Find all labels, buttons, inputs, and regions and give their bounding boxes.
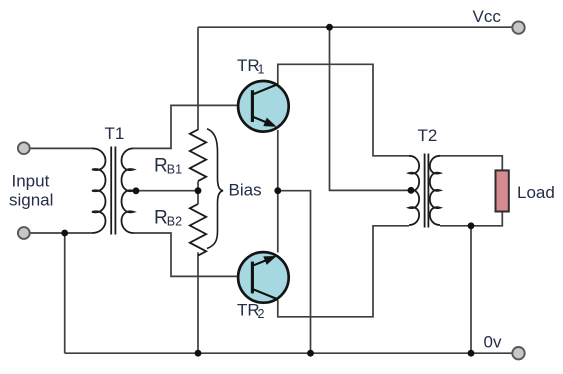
- svg-text:Vcc: Vcc: [473, 7, 502, 26]
- wire RB2 to ground: [197, 252, 199, 353]
- transistor TR2: [238, 252, 289, 303]
- wire 0v rail: [65, 352, 513, 354]
- junction load bottom: [468, 222, 475, 229]
- wire TR2 collector to T2 primary bottom: [278, 226, 409, 317]
- transformer T2 core: [425, 154, 429, 228]
- svg-text:0v: 0v: [484, 332, 502, 351]
- junction T2 center tap: [408, 187, 415, 194]
- svg-text:Bias: Bias: [229, 180, 262, 199]
- wire input top: [30, 147, 93, 149]
- wire T1 secondary bottom to TR2 base: [134, 233, 253, 276]
- svg-text:signal: signal: [9, 191, 53, 210]
- svg-text:R: R: [154, 208, 168, 229]
- wire input bottom: [30, 232, 93, 234]
- wire Vcc to RB1: [197, 27, 199, 130]
- junction ground RB2: [195, 350, 202, 357]
- wire load bottom to T2 secondary bottom: [440, 212, 502, 226]
- wire Vcc rail to T2 center tap: [330, 27, 410, 190]
- svg-text:Input: Input: [12, 172, 50, 191]
- transformer T1 secondary winding: [122, 148, 134, 233]
- svg-text:T1: T1: [105, 124, 125, 143]
- svg-text:TR: TR: [237, 301, 260, 320]
- wire load node to ground: [470, 226, 472, 353]
- wire T1 secondary top to TR1 base: [134, 105, 253, 148]
- svg-text:T2: T2: [418, 126, 438, 145]
- svg-text:TR: TR: [237, 56, 260, 75]
- wire T1 center tap to bias node: [134, 190, 198, 192]
- resistor RB1: [190, 130, 206, 182]
- transformer T1 primary winding: [92, 148, 106, 233]
- svg-text:Load: Load: [517, 183, 555, 202]
- transformer T1 core: [111, 147, 115, 235]
- svg-text:B2: B2: [167, 215, 182, 229]
- terminal Vcc: [512, 21, 524, 33]
- terminal input top: [18, 142, 30, 154]
- junction Vcc rail: [326, 24, 333, 31]
- junction ground load: [468, 350, 475, 357]
- svg-text:2: 2: [258, 307, 265, 321]
- transformer T2 secondary winding: [430, 156, 440, 225]
- wire TR1 collector to T2 primary top: [278, 64, 409, 156]
- junction emitters: [274, 187, 281, 194]
- transistor TR1: [238, 81, 289, 132]
- svg-text:R: R: [154, 156, 168, 177]
- svg-text:B1: B1: [167, 163, 182, 177]
- terminal 0v: [512, 347, 524, 359]
- wire T2 secondary top to load: [440, 156, 502, 171]
- wire TR1 emitter to TR2 emitter: [277, 130, 279, 253]
- load resistor: [496, 170, 509, 211]
- resistor RB2: [190, 204, 206, 256]
- junction T1 center tap: [133, 187, 140, 194]
- wire emitter node to ground: [278, 191, 311, 354]
- transformer T2 primary winding: [409, 156, 419, 225]
- junction input bottom: [61, 230, 68, 237]
- junction ground emitter: [307, 350, 314, 357]
- wire RB1 to RB2 link: [197, 181, 199, 204]
- wire Vcc top rail: [198, 26, 512, 28]
- bias brace: [207, 129, 223, 249]
- wire left ground drop: [64, 233, 66, 353]
- terminal input bottom: [18, 227, 30, 239]
- junction bias divider: [195, 187, 202, 194]
- svg-text:1: 1: [258, 63, 265, 77]
